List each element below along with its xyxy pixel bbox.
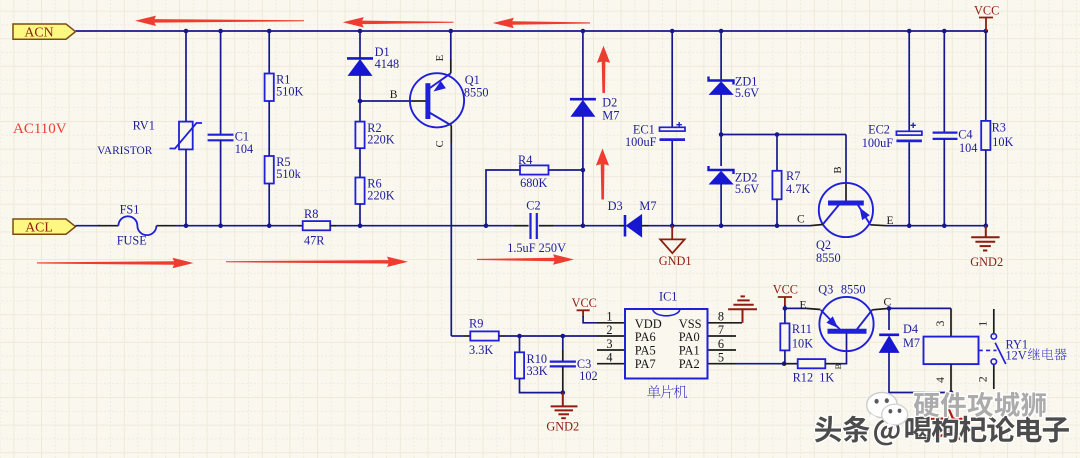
svg-text:2: 2 [606, 323, 612, 337]
svg-text:1: 1 [606, 310, 612, 324]
wire C4 to GND rail [943, 139, 945, 226]
svg-text:680K: 680K [520, 176, 547, 190]
resistor R2 [355, 122, 364, 149]
pin Q2 base [845, 183, 847, 201]
svg-text:RV1: RV1 [133, 119, 155, 133]
junction ACN RV1 [184, 29, 189, 34]
svg-text:4: 4 [606, 351, 612, 365]
svg-text:3: 3 [935, 320, 947, 326]
current flow arrow left 3 [493, 18, 590, 28]
svg-text:10K: 10K [792, 337, 813, 351]
relay RY1 contact pin 2 [993, 365, 995, 390]
svg-text:VDD: VDD [635, 317, 662, 331]
ground GND1 [660, 226, 684, 254]
svg-text:PA1: PA1 [679, 344, 700, 358]
wire R1 to R5 [268, 101, 270, 156]
pin R9 left [464, 335, 470, 337]
junction ACL R5 [267, 223, 272, 228]
junction GND C4 [942, 223, 947, 228]
junction ACL C1 [218, 223, 223, 228]
wire Q1 emitter to ACN [450, 31, 452, 60]
svg-text:VCC: VCC [572, 296, 597, 310]
resistor R6 [355, 178, 364, 205]
zener ZD2 [709, 166, 734, 184]
junction R11 R12 [782, 361, 787, 366]
pin Q1 collector [450, 126, 452, 144]
svg-text:8: 8 [718, 310, 724, 324]
wire ACN to C4 [943, 31, 945, 133]
wire ACN to EC1 [671, 31, 673, 128]
pin R8 right [330, 225, 336, 227]
junction D4 top [887, 306, 892, 311]
wire R8 to C2 [336, 225, 514, 227]
junction GND2 corner [984, 223, 989, 228]
svg-text:VARISTOR: VARISTOR [97, 145, 153, 157]
wire node to R7 [776, 135, 778, 171]
junction ACN C1 [218, 29, 223, 34]
svg-text:1.5uF 250V: 1.5uF 250V [507, 241, 566, 255]
svg-text:E: E [435, 55, 446, 61]
svg-text:4.7K: 4.7K [786, 182, 810, 196]
junction ACL R7 [775, 223, 780, 228]
diode D2 [570, 99, 596, 116]
wire ACN to D1 [359, 31, 361, 58]
svg-text:7: 7 [718, 323, 724, 337]
junction node B [358, 99, 363, 104]
wire ACN to RV1 [185, 31, 187, 122]
wire EC1 to ACL [671, 141, 673, 226]
svg-text:GND2: GND2 [546, 420, 579, 434]
relay RY1 contact pin 1 [993, 309, 995, 334]
current flow arrow up 2 [596, 149, 609, 200]
svg-text:8550: 8550 [841, 282, 866, 296]
transistor Q3 [819, 297, 873, 351]
junction ACL RV1 [184, 223, 189, 228]
pin C2 right [539, 225, 553, 227]
pin C2 left [514, 225, 529, 227]
svg-text:C: C [435, 140, 446, 147]
junction D2 R4 [581, 168, 586, 173]
junction ACL D2 [581, 223, 586, 228]
junction C3 top [561, 334, 566, 339]
svg-text:PA5: PA5 [635, 344, 656, 358]
junction ACN Q1 [449, 29, 454, 34]
wire IC pin5 to R12 [736, 363, 784, 365]
wire R11 to pin5 net [784, 350, 786, 363]
capacitor EC2 [896, 123, 922, 141]
pin fuse left [98, 225, 118, 227]
wire Q2 emitter to GND2 corner [886, 225, 986, 227]
zener ZD1 [709, 77, 734, 95]
junction ACN EC2 [907, 29, 912, 34]
wire ZD1 to ZD2 [720, 94, 722, 166]
svg-text:6: 6 [718, 337, 724, 351]
port ACL [13, 219, 76, 234]
current flow arrow right 3 [477, 254, 574, 264]
junction GND EC2 [907, 223, 912, 228]
svg-text:C2: C2 [526, 199, 540, 213]
junction VCC rail corner [984, 29, 989, 34]
svg-text:ACL: ACL [25, 219, 53, 234]
ground GND2 right [971, 226, 999, 251]
svg-text:D4: D4 [903, 322, 918, 336]
diode D1 [347, 58, 373, 75]
junction relay pin4 D4 [949, 390, 954, 395]
power VCC top [979, 18, 993, 32]
junction ACN ZD1 [719, 29, 724, 34]
svg-text:10K: 10K [992, 135, 1013, 149]
svg-text:M7: M7 [639, 199, 656, 213]
svg-text:102: 102 [579, 369, 597, 383]
svg-text:M7: M7 [602, 109, 619, 123]
svg-text:510k: 510k [276, 167, 301, 181]
resistor R7 [772, 171, 781, 200]
svg-text:PA7: PA7 [635, 357, 656, 371]
svg-text:FS1: FS1 [120, 203, 140, 217]
transistor Q2 [819, 183, 873, 237]
wire C3 top [562, 336, 564, 350]
wire R4 to D2 column [549, 169, 583, 171]
resistor R1 [265, 74, 274, 102]
svg-text:E: E [887, 215, 894, 227]
capacitor C3 [550, 362, 576, 367]
wire VCC to IC pin1 [583, 316, 597, 323]
capacitor C4 [933, 133, 958, 139]
pin D3 left [619, 225, 625, 227]
junction ACL ZD2 [719, 223, 724, 228]
capacitor C1 [208, 135, 234, 141]
relay RY1 actuation dashed link [979, 349, 997, 351]
wire RV1 to ACL [185, 149, 187, 225]
wire node B to Q1 base [360, 100, 412, 102]
wire to R10 [519, 336, 521, 352]
diode D4 [879, 335, 899, 353]
svg-text:R8: R8 [304, 207, 318, 221]
svg-text:8550: 8550 [464, 86, 489, 100]
wire VCC node to R11 [784, 308, 786, 323]
svg-text:IC1: IC1 [659, 289, 677, 303]
svg-text:100uF: 100uF [625, 135, 657, 149]
transistor Q1 [410, 73, 464, 127]
wire ACN to ZD1 [720, 31, 722, 81]
svg-text:M7: M7 [903, 336, 920, 350]
resistor R9 [470, 331, 499, 340]
power VCC right [778, 297, 792, 306]
wire R5 to ACL [268, 184, 270, 226]
svg-text:C: C [797, 214, 805, 226]
watermark red star [932, 407, 965, 438]
svg-text:D3: D3 [608, 199, 623, 213]
pin Q3 collector [872, 308, 889, 309]
pin D3 right [642, 225, 648, 227]
ground GND2 mid [551, 393, 578, 419]
pin C3 top [562, 350, 564, 362]
IC U1 box [625, 309, 708, 379]
power VCC mid [577, 310, 590, 317]
svg-text:D2: D2 [602, 96, 617, 110]
diode D3 [625, 215, 642, 237]
junction ACL EC1 [670, 223, 675, 228]
svg-text:ACN: ACN [24, 24, 53, 39]
svg-text:R9: R9 [469, 317, 483, 331]
wire Q1 collector down to R9 [450, 143, 452, 336]
svg-text:VSS: VSS [679, 317, 702, 331]
wire C2 to D3 [553, 225, 619, 227]
svg-text:B: B [390, 89, 398, 101]
resistor R12 [798, 359, 826, 368]
svg-text:Q2: Q2 [816, 238, 831, 252]
wire C1 to ACL [220, 140, 222, 225]
earth ground at pin 8 [728, 296, 757, 322]
varistor RV1 [170, 122, 203, 150]
wire R9 to IC pin2 [505, 335, 597, 337]
wire EC2 to GND rail [908, 142, 910, 225]
wire R12 to Q3 base [838, 333, 847, 364]
fuse FS1 [118, 216, 156, 235]
pin Q3 emitter [806, 308, 821, 309]
pin fuse right [156, 225, 176, 227]
svg-text:5.6V: 5.6V [735, 182, 759, 196]
wire ACN to C1 [220, 31, 222, 135]
current flow arrow right 1 [37, 258, 194, 268]
wire to Q3 emitter [785, 307, 806, 309]
wire ACN corner to R3 [985, 31, 987, 121]
svg-text:510K: 510K [276, 84, 303, 98]
junction ACN EC1 [670, 29, 675, 34]
pin Q2 emitter [870, 224, 886, 227]
wire ACN to R1 [268, 31, 270, 74]
junction ACL R6 [358, 223, 363, 228]
wire R2 to R6 [359, 148, 361, 177]
junction zener mid node [719, 132, 724, 137]
svg-text:3: 3 [606, 337, 612, 351]
svg-text:Q3: Q3 [818, 282, 833, 296]
svg-text:5: 5 [718, 351, 724, 365]
svg-text:3.3K: 3.3K [469, 343, 493, 357]
junction ACN C4 [942, 29, 947, 34]
resistor R11 [780, 323, 789, 350]
pin relay 4 [950, 364, 952, 392]
junction C3 R10 ground [561, 390, 566, 395]
IC U1 pin stubs left [597, 323, 625, 364]
wire R7 to ACL [776, 199, 778, 225]
pin C3 bottom [562, 366, 564, 392]
wire Q1 collector corner to R9 [451, 335, 464, 337]
wire zener node to Q2 base [721, 134, 846, 136]
wire D2 to ACL [582, 116, 584, 226]
junction R7 top [775, 132, 780, 137]
pin R12 left [784, 363, 798, 365]
wire D4 to relay pin4 [889, 352, 951, 392]
watermark wechat logo [867, 392, 908, 429]
wire VCC to Q3 emitter node [784, 305, 786, 308]
wire net ACN top rail [76, 30, 987, 32]
svg-text:B: B [833, 166, 844, 173]
pin Q1 base [412, 100, 426, 102]
watermark text 头条@喝枸杞论电子 [815, 416, 1069, 446]
svg-text:R4: R4 [518, 153, 532, 167]
label 单片机 [647, 385, 660, 398]
relay RY1 coil [924, 337, 979, 365]
svg-text:C4: C4 [958, 127, 972, 141]
svg-text:47R: 47R [304, 234, 325, 248]
junction R10 top [517, 334, 522, 339]
pin R9 right [499, 335, 505, 337]
wire to D4 [888, 308, 890, 330]
svg-text:PA6: PA6 [635, 330, 656, 344]
svg-text:R3: R3 [992, 121, 1006, 135]
svg-text:4148: 4148 [375, 57, 400, 71]
svg-text:PA0: PA0 [679, 330, 700, 344]
svg-text:B: B [833, 363, 843, 369]
svg-text:4: 4 [935, 377, 947, 383]
resistor R4 [520, 165, 549, 174]
svg-text:GND2: GND2 [970, 255, 1003, 269]
svg-text:R12 1K: R12 1K [793, 371, 835, 385]
resistor R10 [515, 352, 524, 378]
wire ACL to fuse [76, 225, 101, 227]
svg-text:FUSE: FUSE [117, 234, 147, 248]
wire R10 bottom to C3 bottom [520, 379, 563, 393]
svg-text:GND1: GND1 [659, 254, 692, 268]
svg-text:AC110V: AC110V [13, 121, 67, 137]
wire Q3 collector to relay [889, 307, 951, 309]
current flow arrow up 1 [597, 46, 610, 93]
wire D3 to Q2 collector [648, 225, 810, 227]
svg-text:R11: R11 [792, 322, 812, 336]
resistor R3 [981, 121, 990, 150]
wire R6 to ACL [359, 204, 361, 226]
svg-text:E: E [800, 300, 807, 312]
svg-text:104: 104 [959, 141, 977, 155]
wire ACN to EC2 [908, 31, 910, 132]
svg-text:5.6V: 5.6V [735, 86, 759, 100]
watermark text 硬件攻城狮 [914, 392, 1046, 417]
capacitor EC1 [660, 122, 686, 140]
capacitor C2 [531, 213, 537, 239]
junction ACN D1 [358, 29, 363, 34]
pin R8 left [298, 225, 303, 227]
current flow arrow left 2 [343, 17, 454, 27]
junction ACL R4 [484, 223, 489, 228]
resistor R5 [265, 156, 274, 184]
resistor R8 [303, 221, 331, 230]
svg-text:8550: 8550 [816, 251, 841, 265]
svg-text:100uF: 100uF [862, 136, 894, 150]
current flow arrow left 1 [135, 16, 304, 26]
relay RY1 switch arm [995, 343, 1006, 364]
port ACN [13, 24, 76, 39]
pin relay 3 [950, 308, 952, 336]
svg-text:104: 104 [235, 142, 253, 156]
pin R12 right [825, 363, 838, 365]
junction ACN R1 [267, 29, 272, 34]
wire ACN to D2 [582, 31, 584, 99]
wire D1 to R2 node B [359, 75, 361, 121]
svg-text:12V: 12V [1006, 349, 1027, 363]
pin Q2 collector [810, 225, 823, 226]
wire R3 to GND rail [985, 150, 987, 226]
junction VCC R11 E [783, 306, 788, 311]
wire ACL fuse to R8 [176, 225, 298, 227]
svg-text:33K: 33K [527, 364, 548, 378]
svg-text:VCC: VCC [974, 4, 999, 18]
svg-text:2: 2 [978, 376, 990, 382]
wire to Q2 base [845, 135, 847, 184]
svg-text:PA2: PA2 [679, 357, 700, 371]
IC U1 pin stubs right [708, 323, 743, 364]
svg-text:VCC: VCC [773, 283, 798, 297]
junction ACN D2 [581, 29, 586, 34]
svg-text:220K: 220K [367, 188, 394, 202]
wire ZD2 to ACL [720, 184, 722, 226]
wire C2 node up to R4 [486, 170, 520, 226]
svg-text:1: 1 [977, 321, 989, 327]
current flow arrow right 2 [226, 257, 408, 267]
pin Q1 emitter [450, 59, 452, 73]
svg-text:EC2: EC2 [868, 122, 890, 136]
svg-text:220K: 220K [367, 132, 394, 146]
